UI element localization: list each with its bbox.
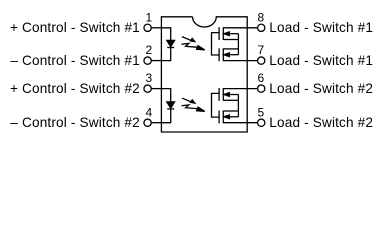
IC body U1 (8-pin DIP outline with pin-1 index notch) <box>161 17 247 132</box>
svg-text:4: 4 <box>145 105 152 119</box>
svg-text:3: 3 <box>145 71 152 85</box>
MOSFET Q1b body arrow <box>223 53 238 57</box>
MOSFET Q2a gate bar <box>218 88 220 101</box>
pin 8 <box>223 10 265 31</box>
svg-text:8: 8 <box>258 10 265 24</box>
MOSFET Q1b channel <box>222 48 224 61</box>
svg-text:5: 5 <box>258 105 265 119</box>
svg-text:Load - Switch #2: Load - Switch #2 <box>269 81 373 96</box>
svg-text:1: 1 <box>145 10 152 24</box>
svg-text:7: 7 <box>258 43 265 57</box>
wire gate bracket channel 1 <box>212 33 219 55</box>
MOSFET Q1a body arrow <box>223 32 238 36</box>
pin 3 <box>144 71 161 92</box>
svg-text:6: 6 <box>258 71 265 85</box>
MOSFET Q2a body arrow <box>223 93 238 97</box>
svg-text:+ Control - Switch #2: + Control - Switch #2 <box>10 81 140 96</box>
svg-text:– Control - Switch #1: – Control - Switch #1 <box>10 53 140 68</box>
MOSFET Q1b source stub <box>223 48 238 50</box>
photon arrow 1b (zigzag) <box>182 43 205 50</box>
pin 2 <box>144 43 161 64</box>
svg-text:– Control - Switch #2: – Control - Switch #2 <box>10 115 140 130</box>
wire LED D1 anode/cathode rail <box>161 28 171 61</box>
MOSFET Q1b gate bar <box>218 48 220 61</box>
svg-text:+ Control - Switch #1: + Control - Switch #1 <box>10 20 140 35</box>
MOSFET Q2b body arrow <box>223 115 238 119</box>
wire LED D2 anode/cathode rail <box>161 89 171 123</box>
svg-text:Load - Switch #1: Load - Switch #1 <box>269 53 373 68</box>
photon arrow 2b (zigzag) <box>182 105 205 112</box>
MOSFET Q2b gate bar <box>218 111 220 124</box>
pin 6 <box>223 71 265 92</box>
pin 4 <box>144 105 161 126</box>
MOSFET Q1a source stub <box>223 39 238 41</box>
MOSFET Q2b source stub <box>223 110 238 112</box>
MOSFET Q2b channel <box>222 111 224 124</box>
LED D2 <box>167 102 175 109</box>
pin 5 <box>223 105 265 126</box>
LED D1 <box>167 40 175 47</box>
svg-text:Load - Switch #1: Load - Switch #1 <box>269 20 373 35</box>
MOSFET Q1a gate bar <box>218 27 220 40</box>
pin 7 <box>223 43 265 64</box>
MOSFET Q1a channel <box>222 27 224 40</box>
MOSFET Q2a channel <box>222 88 224 101</box>
svg-text:2: 2 <box>145 43 152 57</box>
photon arrow 2a <box>182 98 195 103</box>
MOSFET Q2a source stub <box>223 99 238 101</box>
photon arrow 1a <box>182 37 195 42</box>
wire common-source rail channel 2 <box>237 95 239 117</box>
wire common-source rail channel 1 <box>237 34 239 55</box>
pin 1 <box>144 10 161 31</box>
svg-text:Load - Switch #2: Load - Switch #2 <box>269 115 373 130</box>
wire gate bracket channel 2 <box>212 93 219 117</box>
